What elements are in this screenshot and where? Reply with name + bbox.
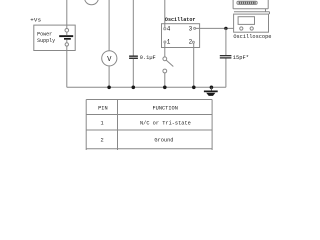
wire oscillator pin4 top (164, 0, 166, 28)
oscillator U1 box (162, 24, 200, 48)
node junction pin2/bus (192, 86, 196, 90)
svg-text:PIN: PIN (98, 105, 108, 111)
node junction C1/bus (132, 86, 136, 90)
svg-text:1: 1 (101, 121, 104, 127)
svg-text:Oscilloscope: Oscilloscope (233, 34, 271, 40)
wire C2 top (225, 28, 227, 55)
oscilloscope screen (238, 17, 254, 25)
battery B1 terminal top (65, 29, 69, 33)
wire capacitor C1 top (132, 0, 134, 56)
svg-text:Oscillator: Oscillator (165, 17, 196, 23)
wire capacitor C1 bottom (132, 59, 134, 87)
battery B1 plates (59, 35, 73, 37)
battery B1 terminal bottom (65, 43, 68, 46)
wire voltmeter top (108, 0, 110, 51)
ground (204, 91, 218, 96)
svg-text:0.1µF: 0.1µF (140, 55, 156, 61)
svg-text:3: 3 (189, 25, 193, 32)
pin 4 (164, 28, 166, 30)
wire counter to oscilloscope (234, 9, 270, 14)
wire C2 bottom to bus (225, 59, 227, 88)
wire battery internal (66, 32, 68, 35)
capacitor C1 0.1uF plates (129, 56, 138, 57)
node junction ground/bus (210, 86, 214, 90)
pin 1 (164, 41, 166, 43)
node junction switch/bus (163, 86, 167, 90)
switch S1 bottom contact (163, 69, 167, 73)
wire ground stub (210, 87, 212, 90)
oscilloscope knob 2 (250, 27, 253, 30)
svg-text:15pF*: 15pF* (233, 55, 249, 61)
oscilloscope knob 1 (240, 27, 243, 30)
svg-text:FUNCTION: FUNCTION (152, 105, 177, 111)
wire supply bottom to bus (66, 46, 68, 87)
wire pin1 to switch (164, 43, 166, 57)
node junction pin3/C2 (224, 27, 227, 30)
ammeter (cut off at top edge) (85, 0, 99, 5)
wire voltmeter bottom (108, 66, 110, 87)
capacitor C2 15pF plates (220, 55, 232, 56)
wire ground bus (67, 86, 226, 88)
wire switch to bus (164, 73, 166, 87)
svg-text:Supply: Supply (37, 38, 55, 44)
power supply box (34, 25, 75, 50)
switch S1 top contact (163, 57, 167, 61)
node junction voltmeter/bus (107, 86, 111, 90)
svg-text:V: V (107, 56, 112, 64)
svg-text:N/C or Tri-state: N/C or Tri-state (140, 121, 191, 127)
switch S1 blade (166, 60, 173, 66)
svg-text:1: 1 (167, 39, 171, 46)
svg-text:4: 4 (167, 25, 171, 32)
svg-text:2: 2 (101, 138, 104, 144)
counter instrument (cut off at top) (233, 0, 268, 9)
counter display ticks (239, 2, 255, 4)
voltmeter V (102, 51, 117, 66)
wire pin2 to bus (193, 43, 195, 87)
svg-text:Ground: Ground (154, 138, 173, 144)
svg-text:Power: Power (37, 31, 52, 37)
table pin functions (86, 100, 212, 151)
wire top supply (66, 0, 68, 29)
wire pin3 to oscilloscope (196, 27, 234, 29)
svg-text:+Vs: +Vs (30, 16, 41, 23)
oscilloscope box (234, 14, 269, 32)
